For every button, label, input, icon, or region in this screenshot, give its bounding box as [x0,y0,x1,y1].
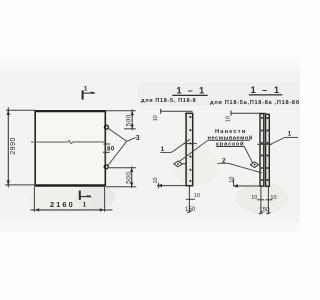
dim 2160 extension right [104,186,106,212]
dim 80 connector [104,144,106,165]
svg-text:10: 10 [153,115,159,121]
arrow right 2160 [100,208,105,211]
svg-text:10: 10 [225,116,231,122]
svg-text:2160: 2160 [50,200,75,209]
s2 stem end tick A [259,212,263,214]
s2 bottom arrow [233,184,238,187]
dim line 2990 [7,107,9,187]
dim line 500 bottom [131,166,133,188]
s2 bottom tick [233,178,235,186]
s2 bottom stem B [267,187,269,215]
svg-text:для П18-5, П18-8: для П18-5, П18-8 [141,98,196,104]
svg-text:10: 10 [251,195,257,201]
s1 panel bar [186,113,193,185]
dim 80 ticks [103,143,110,145]
s2 stem tick A [257,199,264,201]
svg-text:2990: 2990 [10,137,17,155]
dim 2160 extension left [33,186,35,212]
panel face [36,112,105,185]
svg-text:1: 1 [288,130,292,137]
s1 leader 1 shelf [160,151,171,153]
paint note leader to diamond 1 [179,140,208,162]
s2 top level line [231,112,266,114]
arrow bottom 2990 [7,180,10,185]
s1 paint mark diamond [174,161,186,167]
dim 2990 extension bottom [5,184,35,186]
s1 bottom stem [188,186,190,213]
svg-text:1: 1 [84,86,88,93]
dim 2990 extension top [6,109,35,111]
s2 top tick [230,111,232,116]
lifting loop top [104,125,108,129]
s1 stem end tick [187,211,191,213]
svg-text:Нанести: Нанести [215,129,246,135]
s1 top tick [160,109,162,114]
s2 leader 2 diagonal [228,163,262,173]
s2 leader 1 diagonal [269,137,285,145]
svg-text:для П18-5а,П18-8а ,П18-8б: для П18-5а,П18-8а ,П18-8б [210,99,300,106]
paint note underline 2 [208,139,250,141]
s2 bottom stem A [260,187,262,215]
s1 joint tick across bar [183,143,196,145]
s2 leader 1 shelf [285,136,298,138]
svg-text:10: 10 [194,193,200,199]
svg-text:80: 80 [107,146,115,153]
leader 3 stem [127,138,136,142]
s1 rebar dots [189,116,191,182]
s1 leader 1 diagonal [171,139,190,152]
svg-text:500: 500 [125,172,132,184]
paint note underline 3 [216,146,244,148]
s2 bottom level line [233,185,260,187]
arrow left 2160 [35,208,40,211]
svg-text:500: 500 [126,114,133,126]
s2 leader 2 shelf [217,162,228,164]
dim 500 bottom extension lower [106,186,136,188]
s2 stem tick B [266,199,273,201]
dim line 2160 [31,209,113,211]
section mark bottom [79,191,91,209]
svg-text:3: 3 [136,135,140,142]
s2 panel bar A [260,114,264,186]
svg-text:1 – 1: 1 – 1 [177,86,207,96]
lifting loop bottom [104,165,108,169]
s1 bottom arrow [157,184,162,187]
s2 stem end tick B [266,212,270,214]
dim 500 top extension upper [105,110,136,112]
section mark top [82,86,95,100]
paint note leader to diamond 2 [244,147,253,164]
s1 bottom tick [157,183,159,188]
svg-text:1 – 1: 1 – 1 [251,85,282,95]
s2 rebar dots [261,117,269,181]
s1 bottom level line [157,185,186,187]
s1 stem tick [186,198,195,200]
panel outline [35,110,105,186]
svg-text:10: 10 [153,177,159,183]
leader 3 lower line [108,141,127,165]
leader 3 upper line [108,128,127,141]
svg-text:150: 150 [259,206,270,213]
svg-text:10: 10 [270,195,276,201]
dim 500 top extension lower [124,128,136,130]
arrow top 2990 [7,110,10,115]
svg-text:1: 1 [83,201,87,208]
s1 top level line [161,110,193,112]
dim line 500 top [131,109,133,130]
s2 panel bar B [266,114,270,186]
svg-text:10: 10 [229,177,235,183]
mid joint line with break mark [31,141,106,144]
s2 joint tick across bars [257,143,272,145]
s2 paint mark diamond [250,162,260,168]
dim 500 bottom extension upper [109,167,137,169]
